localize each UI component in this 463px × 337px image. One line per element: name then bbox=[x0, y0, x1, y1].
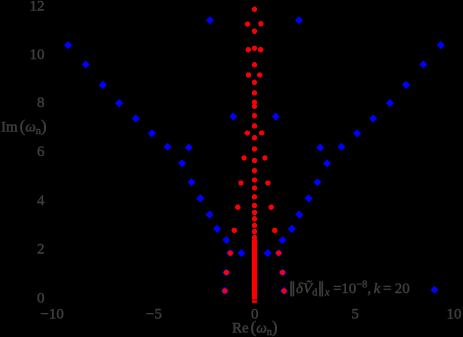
svg-text:−10: −10 bbox=[40, 306, 63, 322]
blue diamond branch right bbox=[279, 41, 445, 244]
red circle column on imaginary axis bbox=[252, 7, 257, 240]
red circle symmetric pairs bbox=[232, 21, 278, 233]
svg-text:−5: −5 bbox=[146, 306, 162, 322]
blue diamonds under red circles (lower branch tails) bbox=[221, 249, 288, 295]
svg-text:10: 10 bbox=[447, 306, 462, 322]
x-axis line crossing the red bar (dark band) bbox=[252, 299, 257, 300]
svg-text:8: 8 bbox=[37, 95, 45, 111]
svg-text:5: 5 bbox=[351, 306, 359, 322]
svg-text:12: 12 bbox=[30, 0, 45, 14]
legend blue diamond marker bbox=[430, 286, 438, 294]
svg-text:10: 10 bbox=[30, 47, 45, 63]
svg-text:0: 0 bbox=[37, 290, 45, 306]
svg-text:2: 2 bbox=[37, 242, 45, 258]
svg-text:4: 4 bbox=[37, 193, 45, 209]
svg-text:6: 6 bbox=[37, 144, 45, 160]
dense red marker bar at Re=0 bbox=[252, 239, 257, 303]
red circles on top of lower blue diamonds bbox=[222, 250, 287, 293]
blue diamond branch left bbox=[64, 41, 230, 244]
blue diamond inner pairs bbox=[206, 16, 303, 257]
